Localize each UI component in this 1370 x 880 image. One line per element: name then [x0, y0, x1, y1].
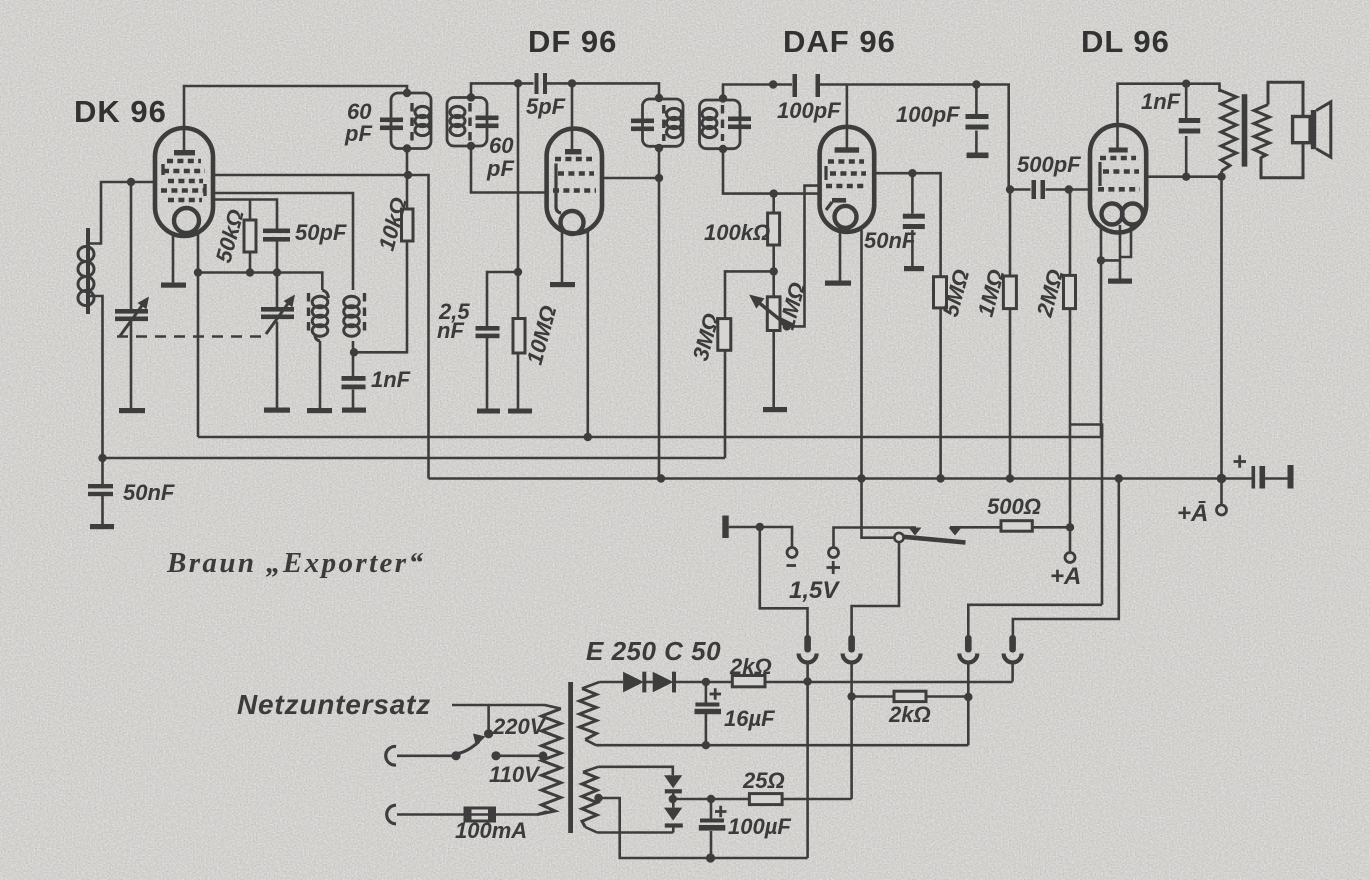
svg-text:100µF: 100µF	[728, 814, 791, 839]
svg-text:100pF: 100pF	[896, 102, 960, 127]
svg-text:50nF: 50nF	[123, 480, 175, 505]
svg-text:1,5V: 1,5V	[789, 577, 840, 604]
svg-text:1nF: 1nF	[371, 367, 411, 392]
svg-text:E 250 C 50: E 250 C 50	[586, 636, 721, 666]
svg-text:16µF: 16µF	[724, 706, 775, 731]
svg-text:50nF: 50nF	[864, 228, 916, 253]
svg-text:nF: nF	[437, 318, 464, 343]
svg-text:100mA: 100mA	[455, 818, 527, 843]
svg-text:100pF: 100pF	[777, 98, 841, 123]
svg-text:220V: 220V	[492, 714, 547, 739]
svg-text:500Ω: 500Ω	[987, 494, 1041, 519]
svg-text:2kΩ: 2kΩ	[729, 654, 772, 679]
svg-text:2kΩ: 2kΩ	[888, 702, 931, 727]
svg-text:100kΩ: 100kΩ	[704, 220, 770, 245]
svg-text:+A: +A	[1050, 563, 1081, 590]
svg-text:DK 96: DK 96	[74, 94, 167, 129]
svg-text:pF: pF	[486, 156, 514, 181]
svg-text:Netzuntersatz: Netzuntersatz	[237, 689, 431, 720]
svg-text:DL 96: DL 96	[1081, 24, 1170, 59]
svg-text:pF: pF	[344, 121, 372, 146]
svg-text:5pF: 5pF	[526, 94, 566, 119]
svg-text:DF 96: DF 96	[528, 24, 617, 59]
svg-text:110V: 110V	[489, 762, 541, 787]
svg-text:Braun „Exporter“: Braun „Exporter“	[166, 547, 425, 579]
svg-text:60: 60	[489, 133, 514, 158]
svg-text:50pF: 50pF	[295, 220, 347, 245]
svg-text:25Ω: 25Ω	[742, 768, 785, 793]
svg-text:1nF: 1nF	[1141, 89, 1181, 114]
svg-text:500pF: 500pF	[1017, 152, 1081, 177]
svg-text:+Ā: +Ā	[1177, 500, 1208, 527]
svg-text:DAF 96: DAF 96	[783, 24, 896, 59]
